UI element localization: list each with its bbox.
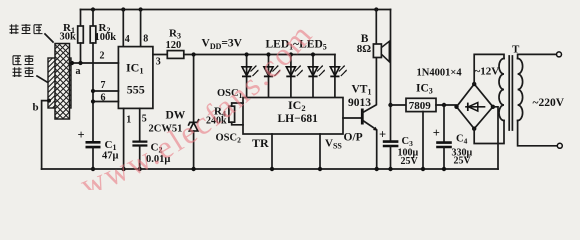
svg-text:T: T <box>512 43 520 55</box>
junction: VSS on ground rail <box>318 167 322 171</box>
junction: C2 on ground rail <box>138 167 142 171</box>
wire: pin 6 stub <box>93 101 118 103</box>
wire: rail right end down to 7809 output and C3 <box>390 10 392 142</box>
junction: pin1 on ground rail <box>121 167 125 171</box>
svg-text:+: + <box>78 128 85 142</box>
svg-text:8: 8 <box>143 34 148 45</box>
junction: LED2 anode <box>266 52 270 56</box>
watermark www.elecfans.com <box>56 10 334 207</box>
junction: speaker branch on rail <box>374 7 378 11</box>
LED D4 <box>308 55 325 98</box>
wire: pin 8 from rail to IC1 <box>140 10 142 47</box>
svg-text:5: 5 <box>142 113 147 124</box>
junction: 7809 gnd on ground rail <box>421 167 425 171</box>
wire: pin 1 to ground rail <box>123 108 125 169</box>
svg-text:555: 555 <box>127 83 145 97</box>
wire: TR pin to ground rail <box>271 134 273 169</box>
wire: primary top lead to mains terminal <box>518 54 557 58</box>
terminal: mains top <box>557 52 562 57</box>
wire: bridge AC bottom to transformer secondary <box>474 121 504 144</box>
junction: C3 on ground rail <box>388 167 392 171</box>
speaker B 8ohm <box>373 10 389 62</box>
op-amp/timer IC1 555 box <box>118 47 152 109</box>
junction: R1 bottom on pin2 wire <box>78 61 82 65</box>
wire: VSS pin to ground rail <box>319 134 321 169</box>
resistor R1 <box>78 10 84 64</box>
junction: VT1 emitter on ground rail <box>375 167 379 171</box>
junction: pin7 on R2 line <box>91 89 95 93</box>
resistor R3 <box>167 51 184 59</box>
terminal: mains bottom <box>557 143 562 148</box>
junction: C4 top node <box>442 103 446 107</box>
LED D3 <box>286 55 303 98</box>
capacitor C3 (100u 25V) <box>383 142 399 169</box>
svg-text:120: 120 <box>166 40 182 51</box>
junction: 7809 output node <box>388 103 392 107</box>
junction: C4 on ground rail <box>442 167 446 171</box>
junction: LED1 anode <box>245 52 249 56</box>
junction: zener top on VDD wire <box>192 52 196 56</box>
svg-text:1N4001×4: 1N4001×4 <box>417 68 463 79</box>
svg-text:2: 2 <box>100 50 105 61</box>
node a terminal dot <box>70 61 74 65</box>
wire: 7809 ground pin <box>422 112 424 169</box>
label 导电橡胶 (conductive rubber) <box>13 55 48 82</box>
transistor Q1 VT1 9013 <box>362 58 377 170</box>
wire: primary bottom lead to mains terminal <box>518 121 558 146</box>
svg-text:7: 7 <box>101 80 106 91</box>
junction: LED3 anode <box>289 52 293 56</box>
svg-text:+: + <box>433 126 440 140</box>
junction: zener on ground rail <box>191 167 195 171</box>
svg-text:7809: 7809 <box>409 100 432 112</box>
label 绝缘层 (insulating layer) <box>10 24 54 42</box>
transformer T secondary winding <box>499 59 504 121</box>
wire: pin 3 output of IC1 to R3 <box>153 54 167 56</box>
wire: VDD rail from R3 to LED5 <box>184 54 335 56</box>
svg-text:3: 3 <box>156 56 161 67</box>
wire: bridge DC minus to ground rail <box>493 107 498 169</box>
svg-text:4: 4 <box>125 34 130 45</box>
LED D2 <box>264 55 281 98</box>
junction: pin8 on rail <box>139 7 143 11</box>
svg-text:~12V: ~12V <box>475 66 500 78</box>
wire: pin 4 from rail to IC1 <box>122 10 124 47</box>
wire: 7809 output wire <box>391 104 407 106</box>
wire: pin 7 stub <box>93 90 118 92</box>
svg-text:TR: TR <box>252 136 269 150</box>
junction: pin6 on R2 line <box>91 99 95 103</box>
junction: pin4 on rail <box>121 7 125 11</box>
bridge rectifier 1N4001x4 <box>454 82 495 131</box>
IC U2 LH-681 box <box>243 98 343 135</box>
resistor R4 between OSC1 and OSC2 <box>229 103 243 125</box>
junction: TR on ground rail <box>270 167 274 171</box>
svg-text:25V: 25V <box>401 156 419 167</box>
wire: top supply rail <box>81 9 391 11</box>
zener diode DW 2CW51 <box>189 55 199 170</box>
svg-text:30k: 30k <box>60 32 77 43</box>
touch electrode: insulating layer (hatched outer) <box>48 58 71 108</box>
LED D1 <box>242 55 259 98</box>
junction: LED4 anode <box>311 52 315 56</box>
svg-text:VDD=3V: VDD=3V <box>202 38 243 52</box>
svg-text:a: a <box>76 66 81 77</box>
resistor R2 <box>90 10 96 143</box>
transformer T core <box>509 56 512 130</box>
wire: electrode a to pin 2 of IC1 <box>70 62 119 64</box>
svg-text:100k: 100k <box>95 32 117 43</box>
svg-text:1: 1 <box>126 114 131 125</box>
touch electrode: conductive rubber (cross-hatched inner) <box>55 44 70 120</box>
svg-text:~220V: ~220V <box>533 97 565 109</box>
wire: bridge AC top to transformer secondary <box>474 54 504 84</box>
svg-text:O/P: O/P <box>344 132 363 144</box>
wire: 7809 input wire to bridge <box>436 104 457 106</box>
junction: R2 top on rail <box>91 7 95 11</box>
wire: ground rail (bottom) <box>42 168 498 170</box>
capacitor C2 (0.01u) <box>132 142 147 169</box>
LED D5 <box>330 55 347 98</box>
junction: C1 on ground rail <box>91 167 95 171</box>
wire: b lead from electrode down to ground rail <box>42 101 48 169</box>
wire: pin 5 to C2 <box>139 108 141 141</box>
svg-text:b: b <box>33 102 39 114</box>
wire: O/P output to VT1 base <box>343 117 361 119</box>
svg-text:+: + <box>379 127 386 141</box>
svg-text:6: 6 <box>101 92 106 103</box>
node b terminal dot <box>47 99 51 103</box>
capacitor C1 (polarized 47u) <box>86 142 101 169</box>
regulator IC3 7809 <box>406 98 436 111</box>
transformer T primary winding <box>518 59 523 121</box>
svg-text:25V: 25V <box>454 155 472 166</box>
svg-text:9013: 9013 <box>348 97 371 109</box>
svg-text:LH−681: LH−681 <box>278 113 319 125</box>
svg-text:8Ω: 8Ω <box>357 43 372 55</box>
capacitor C4 (330u 25V) <box>436 105 452 169</box>
